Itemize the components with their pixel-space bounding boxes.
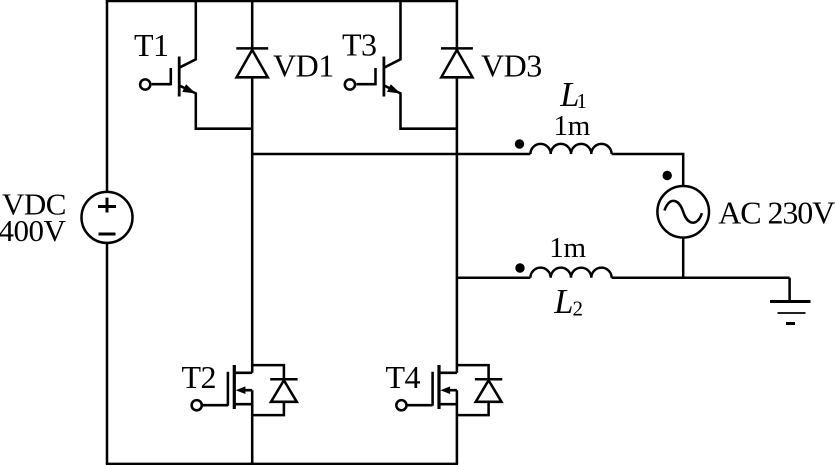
svg-text:VD1: VD1	[273, 47, 334, 83]
svg-text:T1: T1	[134, 27, 169, 63]
svg-text:1m: 1m	[549, 232, 586, 264]
svg-text:T4: T4	[386, 359, 421, 395]
svg-text:AC 230V: AC 230V	[718, 195, 835, 231]
svg-text:400V: 400V	[0, 213, 67, 248]
svg-text:2: 2	[573, 297, 584, 321]
svg-text:T2: T2	[182, 359, 217, 395]
svg-text:VD3: VD3	[481, 47, 542, 83]
svg-text:1m: 1m	[554, 110, 591, 142]
svg-text:T3: T3	[342, 27, 377, 63]
svg-text:L: L	[553, 283, 573, 321]
svg-text:1: 1	[577, 89, 588, 113]
